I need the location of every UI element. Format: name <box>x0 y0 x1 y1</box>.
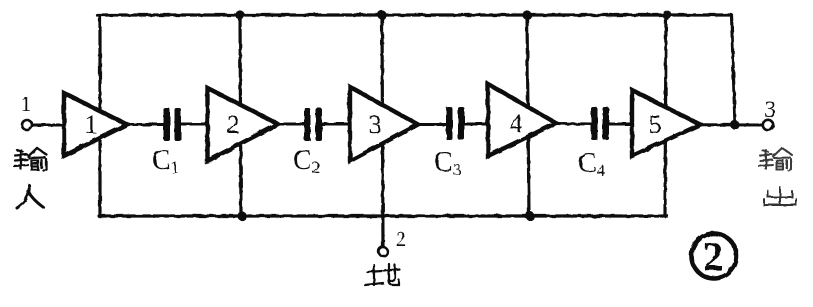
svg-text:3: 3 <box>764 97 776 123</box>
capacitor C2 <box>304 108 322 141</box>
svg-text:2: 2 <box>396 227 407 251</box>
wire bottom supply rail <box>99 214 667 217</box>
wire vertical through stage 4 <box>527 15 529 216</box>
svg-text:C3: C3 <box>434 147 461 179</box>
capacitor C4 <box>591 107 609 140</box>
junction dot top rail stage 5 <box>662 10 671 19</box>
wire amp5 to output terminal <box>700 123 762 126</box>
op-amp U1 <box>64 93 127 156</box>
svg-text:2: 2 <box>227 110 240 139</box>
junction dot bottom rail stage 4 <box>525 211 534 220</box>
wire amp1 to C1 <box>127 123 164 126</box>
wire amp2 to C2 <box>278 123 305 126</box>
wire right drop from top rail to output node <box>732 15 736 125</box>
svg-text:C4: C4 <box>578 148 606 180</box>
junction dot top rail stage 3 <box>377 10 386 19</box>
svg-text:4: 4 <box>510 109 523 138</box>
svg-text:1: 1 <box>85 110 98 139</box>
figure number 2 circled <box>692 234 737 279</box>
svg-text:3: 3 <box>369 110 382 139</box>
op-amp U2 <box>208 88 279 161</box>
wire vertical through stage 1 <box>98 15 101 216</box>
svg-text:2: 2 <box>703 233 724 279</box>
capacitor C1 <box>164 108 182 141</box>
svg-text:1: 1 <box>21 92 32 116</box>
wire amp3 to C3 <box>418 123 447 126</box>
op-amp U3 <box>350 87 418 161</box>
label shu input char <box>14 148 47 171</box>
svg-text:C1: C1 <box>152 145 179 177</box>
wire amp4 to C4 <box>556 122 592 126</box>
junction dot top rail stage 4 <box>522 10 531 19</box>
terminal 1 input <box>22 120 32 130</box>
junction dot top rail stage 2 <box>235 10 244 19</box>
junction dot bottom rail stage 2 <box>237 211 246 220</box>
wire vertical through stage 2 <box>240 15 241 216</box>
label ru input char <box>17 185 43 208</box>
svg-text:C2: C2 <box>293 145 320 177</box>
svg-text:5: 5 <box>649 110 662 139</box>
wire C3 to amp 4 <box>464 123 489 126</box>
label chu output char <box>764 187 796 205</box>
wire input to amp 1 <box>33 124 64 127</box>
capacitor C3 <box>446 107 465 140</box>
op-amp U5 <box>632 90 700 156</box>
wire C2 to amp 3 <box>322 123 351 126</box>
label di ground char <box>365 264 399 285</box>
wire vertical through stage 5 <box>665 15 666 216</box>
op-amp U4 <box>488 84 556 156</box>
wire C4 to amp 5 <box>609 123 633 126</box>
terminal 3 output <box>763 120 773 130</box>
wire top supply rail <box>97 13 731 16</box>
terminal 2 ground <box>379 247 388 256</box>
junction dot output node <box>730 120 739 129</box>
label shu output char <box>759 148 792 171</box>
wire vertical through stage 3 to ground terminal <box>382 15 383 247</box>
wire C1 to amp 2 <box>181 123 209 126</box>
